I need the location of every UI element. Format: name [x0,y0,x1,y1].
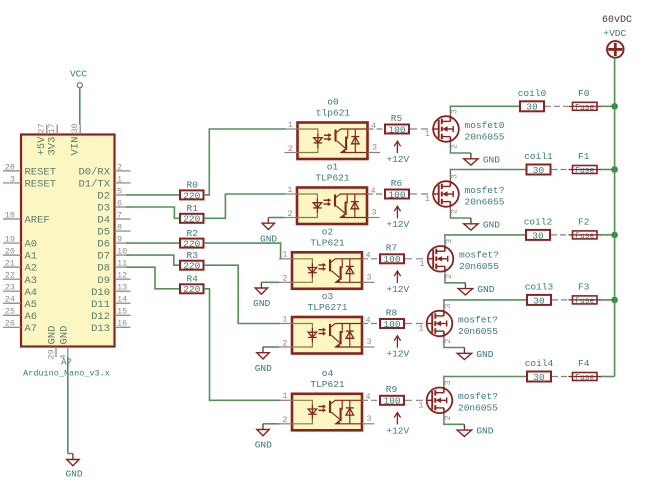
svg-text:mosfet?: mosfet? [465,185,505,196]
svg-text:A5: A5 [25,299,38,311]
svg-text:RESET: RESET [25,179,57,191]
svg-text:o2: o2 [322,226,334,237]
svg-text:1: 1 [418,400,423,410]
svg-text:6: 6 [117,198,122,208]
svg-text:100: 100 [383,396,400,407]
svg-text:GND: GND [477,284,494,295]
svg-text:13: 13 [117,283,127,293]
svg-text:TLP621: TLP621 [310,379,345,390]
svg-text:GND: GND [483,219,500,230]
svg-text:D10: D10 [91,287,110,299]
svg-text:23: 23 [5,283,15,293]
svg-text:D9: D9 [97,275,110,287]
svg-text:10: 10 [117,247,127,257]
svg-text:mosfet?: mosfet? [458,314,498,325]
svg-text:Fuse: Fuse [575,167,594,176]
svg-text:GND: GND [255,440,272,451]
svg-text:25: 25 [5,307,15,317]
svg-text:A6: A6 [25,311,38,323]
svg-text:100: 100 [383,254,400,265]
svg-text:1: 1 [282,250,287,260]
svg-text:D8: D8 [97,263,110,275]
svg-text:GND: GND [476,426,493,437]
svg-text:R2: R2 [187,228,199,239]
svg-text:100: 100 [383,319,400,330]
svg-text:12: 12 [117,271,127,281]
svg-text:30: 30 [532,230,544,241]
svg-text:D7: D7 [97,251,110,263]
svg-text:F2: F2 [578,217,590,228]
svg-text:D0/RX: D0/RX [78,167,110,179]
svg-text:D4: D4 [97,215,110,227]
svg-text:Fuse: Fuse [575,374,594,383]
svg-text:16: 16 [117,319,127,329]
svg-text:coil2: coil2 [524,217,553,228]
svg-text:220: 220 [183,261,200,272]
svg-text:220: 220 [183,190,200,201]
svg-text:F4: F4 [578,358,590,369]
svg-text:11: 11 [117,259,127,269]
svg-text:D1/TX: D1/TX [78,179,110,191]
svg-text:21: 21 [5,259,15,269]
svg-text:100: 100 [388,189,405,200]
svg-text:A3: A3 [25,275,38,287]
svg-text:R4: R4 [187,274,199,285]
svg-text:Fuse: Fuse [575,103,594,112]
svg-text:30: 30 [533,165,545,176]
svg-text:R5: R5 [391,113,403,124]
svg-text:3: 3 [367,272,372,282]
svg-text:GND: GND [476,349,493,360]
svg-text:3: 3 [372,143,377,153]
svg-text:3: 3 [10,174,15,184]
svg-text:29: 29 [47,349,57,359]
svg-text:20n6055: 20n6055 [465,131,505,142]
svg-text:D13: D13 [91,323,110,335]
svg-text:3V3: 3V3 [46,137,58,156]
svg-text:coil1: coil1 [524,151,553,162]
svg-text:D6: D6 [97,239,110,251]
svg-text:F0: F0 [578,88,590,99]
svg-text:GND: GND [253,298,270,309]
svg-text:1: 1 [425,129,430,139]
svg-text:20: 20 [5,247,15,257]
svg-text:14: 14 [117,295,127,305]
svg-text:1: 1 [419,259,424,269]
svg-text:R6: R6 [391,178,403,189]
svg-text:TLP6271: TLP6271 [308,302,348,313]
svg-text:1: 1 [117,174,122,184]
svg-text:VIN: VIN [69,137,81,156]
svg-text:mosfet?: mosfet? [458,391,498,402]
svg-text:GND: GND [58,326,70,345]
svg-text:1: 1 [287,185,292,195]
svg-text:A?: A? [61,358,72,368]
svg-text:7: 7 [117,210,122,220]
svg-text:R8: R8 [386,307,398,318]
svg-text:TLP621: TLP621 [315,173,350,184]
svg-text:Fuse: Fuse [575,232,594,241]
svg-text:Fuse: Fuse [575,297,594,306]
svg-text:D2: D2 [97,191,110,203]
svg-text:3: 3 [367,414,372,424]
svg-text:19: 19 [5,234,15,244]
svg-text:R3: R3 [187,250,199,261]
svg-text:+12V: +12V [386,219,409,230]
svg-text:+VDC: +VDC [603,28,626,39]
svg-text:GND: GND [47,326,59,345]
svg-text:2: 2 [117,162,122,172]
svg-text:30: 30 [70,123,80,133]
svg-text:RESET: RESET [25,167,57,179]
svg-text:R7: R7 [386,243,397,254]
svg-text:coil3: coil3 [525,282,554,293]
svg-text:60vDC: 60vDC [602,15,632,26]
svg-text:8: 8 [117,222,122,232]
svg-text:o1: o1 [327,162,339,173]
svg-text:30: 30 [533,295,545,306]
svg-text:9: 9 [117,234,122,244]
svg-text:VCC: VCC [70,69,87,80]
svg-text:R0: R0 [187,180,199,191]
svg-text:17: 17 [47,123,57,133]
svg-text:D12: D12 [91,311,110,323]
svg-text:coil4: coil4 [525,358,554,369]
svg-text:D3: D3 [97,203,110,215]
svg-text:20n6055: 20n6055 [459,261,499,272]
svg-text:3: 3 [372,208,377,218]
svg-text:o3: o3 [322,291,334,302]
svg-text:AREF: AREF [25,215,50,227]
svg-text:TLP621: TLP621 [310,238,345,249]
svg-text:27: 27 [37,123,47,133]
svg-text:1: 1 [282,391,287,401]
svg-text:GND: GND [255,363,272,374]
svg-text:220: 220 [183,214,200,225]
svg-text:28: 28 [5,162,15,172]
svg-text:GND: GND [65,468,82,479]
svg-text:o4: o4 [322,368,334,379]
svg-text:R9: R9 [386,384,398,395]
svg-text:mosfet?: mosfet? [459,250,499,261]
svg-text:D11: D11 [91,299,110,311]
svg-text:5: 5 [117,186,122,196]
svg-text:20n6055: 20n6055 [458,403,498,414]
svg-text:o0: o0 [327,97,339,108]
svg-text:15: 15 [117,307,127,317]
svg-text:R1: R1 [187,203,199,214]
svg-text:mosfet0: mosfet0 [465,120,505,131]
svg-text:18: 18 [5,210,15,220]
svg-text:1: 1 [288,120,293,130]
svg-text:22: 22 [5,271,15,281]
svg-text:30: 30 [526,102,538,113]
svg-text:A0: A0 [25,239,38,251]
svg-text:F3: F3 [578,282,590,293]
svg-text:GND: GND [483,154,500,165]
svg-text:1: 1 [282,314,287,324]
svg-text:+12V: +12V [386,284,409,295]
svg-text:220: 220 [183,239,200,250]
svg-text:20n6055: 20n6055 [465,196,505,207]
svg-text:coil0: coil0 [518,88,547,99]
svg-text:+12V: +12V [386,426,409,437]
svg-text:20n6055: 20n6055 [458,326,498,337]
svg-text:1: 1 [418,324,423,334]
svg-text:220: 220 [183,284,200,295]
svg-text:24: 24 [5,295,15,305]
svg-text:A2: A2 [25,263,38,275]
svg-text:3: 3 [367,337,372,347]
svg-text:Arduino_Nano_v3.x: Arduino_Nano_v3.x [23,369,110,379]
svg-text:F1: F1 [578,151,590,162]
svg-text:+12V: +12V [386,349,409,360]
svg-text:A7: A7 [25,323,38,335]
svg-text:tlp621: tlp621 [316,108,351,119]
svg-text:+12V: +12V [386,154,409,165]
svg-text:A1: A1 [25,251,38,263]
svg-text:26: 26 [5,319,15,329]
svg-text:D5: D5 [97,227,110,239]
svg-text:1: 1 [425,194,430,204]
svg-text:30: 30 [533,372,545,383]
svg-text:100: 100 [388,124,405,135]
svg-text:A4: A4 [25,287,38,299]
